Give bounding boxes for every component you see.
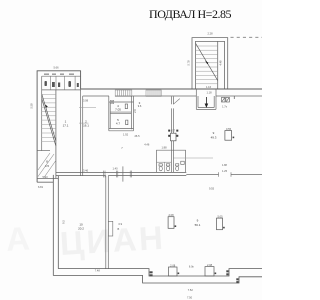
rooms 4-5 right wall [131, 96, 133, 131]
svg-text:5.66: 5.66 [53, 66, 59, 70]
svg-text:4.7: 4.7 [116, 122, 121, 126]
toilet block outline [157, 150, 186, 172]
svg-text:0.7: 0.7 [171, 129, 175, 133]
stair treads (upper stair) [196, 46, 218, 84]
svg-text:2.08: 2.08 [207, 263, 213, 267]
svg-text:7.50: 7.50 [187, 295, 193, 299]
door leaf top of wall [173, 99, 179, 105]
niche on interior wall [108, 221, 113, 236]
entry stair hatch 2 [146, 90, 161, 96]
entry door rect at top [110, 100, 113, 103]
wall ticks [104, 171, 132, 178]
wall x171-173 vertical [171, 97, 173, 173]
hall interior wall [106, 176, 109, 269]
entry stair lower box [196, 89, 216, 109]
svg-text:1.25: 1.25 [222, 169, 228, 173]
annex right wall inner [81, 89, 83, 176]
annex outer wall [37, 71, 81, 182]
svg-text:26.5: 26.5 [134, 134, 140, 138]
middle wall right single [186, 173, 262, 175]
svg-text:0.55: 0.55 [226, 127, 232, 131]
svg-text:17.1: 17.1 [63, 124, 69, 128]
svg-text:6.81: 6.81 [38, 185, 44, 189]
leader line [174, 157, 214, 159]
annex stair treads [42, 94, 56, 141]
bottom outer outline [53, 276, 262, 284]
stair enclosure inner walls [196, 41, 225, 89]
annex stair diagonals [42, 95, 56, 147]
room band bottom wall [42, 89, 81, 91]
svg-text:5.58: 5.58 [30, 103, 34, 109]
entry stair hatch 1 [115, 90, 132, 96]
svg-text:1.40: 1.40 [112, 166, 118, 170]
toilet stall divider [164, 162, 166, 172]
svg-text:56.1: 56.1 [195, 223, 201, 227]
svg-text:ПОДВАЛ Н=2.85: ПОДВАЛ Н=2.85 [149, 7, 231, 21]
rooms 4-5 bottom wall [109, 129, 134, 131]
svg-text:2.08: 2.08 [170, 263, 176, 267]
radiator room 5 [126, 120, 128, 125]
stair enclosure outer [192, 38, 228, 89]
column near room 9 [225, 131, 232, 141]
svg-text:4.46: 4.46 [144, 142, 150, 146]
annex top inner [42, 75, 81, 77]
north wall inner [83, 96, 262, 99]
svg-text:В: В [118, 227, 120, 231]
radiator room 4 [125, 104, 127, 109]
svg-text:0.9: 0.9 [119, 222, 123, 226]
north wall outer [81, 88, 262, 90]
step pilaster [150, 271, 153, 276]
stair diagonal [196, 44, 218, 81]
gap end ticks [219, 172, 232, 177]
stair arrow [205, 61, 208, 65]
svg-text:7.05: 7.05 [115, 108, 121, 112]
dashed line to right edge [231, 36, 263, 38]
svg-text:2.28: 2.28 [207, 32, 213, 36]
room 8 hatch [38, 153, 56, 178]
svg-text:4.48: 4.48 [219, 60, 223, 66]
room 4 top [109, 101, 134, 103]
column B2 [217, 218, 223, 230]
room 2 leaders [79, 108, 96, 124]
annex bottom wall [37, 179, 58, 183]
svg-text:3.08: 3.08 [83, 99, 89, 103]
wall between 4 and 5 [110, 112, 131, 114]
svg-text:20.2: 20.2 [78, 227, 84, 231]
stair right rail [217, 41, 219, 89]
toilet internal shelf [157, 161, 172, 163]
svg-text:3.46: 3.46 [83, 168, 89, 172]
svg-text:1.16: 1.16 [206, 85, 212, 89]
svg-text:9.5: 9.5 [62, 220, 66, 224]
svg-text:16.1: 16.1 [83, 123, 89, 127]
svg-text:А: А [5, 219, 34, 258]
svg-text:5.05: 5.05 [217, 215, 223, 219]
svg-text:1.18: 1.18 [206, 90, 212, 94]
electrical panels [222, 97, 230, 102]
svg-text:9.6: 9.6 [138, 104, 142, 108]
svg-text:1.8б: 1.8б [222, 163, 228, 167]
svg-text:9.55: 9.55 [209, 187, 215, 191]
band fixtures [45, 81, 79, 87]
column B1 [168, 217, 174, 229]
shaft corner squares [168, 130, 178, 137]
room band dividers [50, 76, 75, 90]
vent shaft box [171, 133, 177, 141]
WC fixtures [159, 161, 184, 171]
step tick marks right [226, 270, 238, 283]
bottom pilaster 1 [169, 267, 178, 276]
svg-text:5.93: 5.93 [43, 175, 49, 179]
annex inner left wall [41, 76, 43, 150]
svg-text:7.48: 7.48 [95, 269, 101, 273]
svg-text:4.5: 4.5 [45, 164, 50, 168]
hall left wall [53, 175, 58, 276]
svg-text:2.6: 2.6 [133, 109, 137, 113]
rooms 4-5 left wall [109, 96, 110, 131]
svg-text:2.08: 2.08 [168, 213, 174, 217]
svg-text:49.3: 49.3 [211, 135, 217, 139]
svg-text:7.52: 7.52 [188, 288, 194, 292]
annex stair right rail [55, 90, 57, 179]
band tiny labels [44, 74, 74, 75]
entry arrow [205, 97, 207, 104]
svg-text:1.92: 1.92 [123, 133, 129, 137]
room 8 top wall [37, 150, 50, 152]
svg-text:5.78: 5.78 [187, 60, 191, 66]
middle wall band [56, 172, 186, 175]
long tick [122, 166, 124, 181]
annex stair arrow [45, 105, 48, 108]
bottom pilaster 2 [205, 267, 214, 276]
svg-text:1.88: 1.88 [161, 146, 167, 150]
bottom inner outline [58, 269, 262, 276]
